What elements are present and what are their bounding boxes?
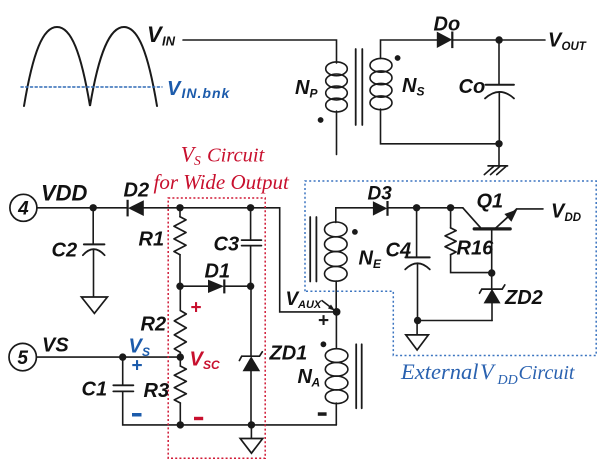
svg-text:N: N	[359, 248, 374, 270]
svg-text:Circuit: Circuit	[207, 145, 266, 167]
svg-text:S: S	[417, 85, 425, 99]
svg-text:S: S	[142, 345, 150, 359]
svg-text:4: 4	[17, 199, 29, 220]
capacitor Co	[486, 84, 514, 86]
node dot C4 top	[413, 204, 420, 211]
svg-text:+: +	[318, 311, 329, 332]
node dot VDD/C2	[90, 204, 97, 211]
wire Q1 base node to ZD2	[491, 273, 493, 289]
wire C1 bottom lead to bottom rail	[123, 392, 181, 425]
svg-text:Co: Co	[459, 76, 486, 98]
svg-text:Circuit: Circuit	[519, 362, 575, 384]
phase dot NS	[395, 55, 401, 61]
wire ZD2 bottom lead	[491, 303, 493, 321]
node dot bottom rail left	[177, 421, 184, 428]
svg-text:IN.bnk: IN.bnk	[182, 85, 231, 101]
svg-text:DD: DD	[565, 212, 582, 224]
transistor Q1 base lead down	[491, 230, 493, 273]
wire Co top lead	[498, 40, 500, 84]
wire C2 top lead	[92, 208, 94, 244]
svg-text:IN: IN	[162, 34, 176, 49]
svg-text:SC: SC	[203, 358, 220, 372]
resistor R3	[174, 366, 186, 403]
svg-text:C2: C2	[52, 240, 78, 262]
phase dot NA	[321, 341, 327, 347]
wire R1 top lead	[179, 208, 181, 217]
wire NS top lead to diode Do	[381, 40, 437, 59]
wire VS-circuit output to VAUX node	[251, 208, 337, 312]
svg-text:P: P	[310, 87, 319, 101]
node dot VS-circuit top left	[176, 204, 183, 211]
wire C4 top lead	[416, 208, 418, 257]
svg-text:DD: DD	[497, 373, 518, 388]
ground (earth) below Co	[488, 165, 507, 167]
wire D1 cathode	[224, 285, 250, 287]
ground triangle below C4	[406, 335, 429, 350]
wire VDD rail from pin 4 to D2	[37, 207, 127, 209]
svg-text:C4: C4	[386, 240, 412, 262]
svg-text:V: V	[480, 359, 496, 384]
svg-text:N: N	[402, 75, 417, 97]
wire R2 bottom lead to VSC node	[179, 352, 181, 357]
ground triangle below C2	[81, 297, 107, 313]
capacitor C4	[405, 256, 429, 258]
resistor R1	[174, 217, 186, 255]
svg-text:V: V	[167, 78, 182, 100]
wire ground stub below C4	[416, 321, 418, 335]
svg-text:D1: D1	[205, 261, 231, 283]
minus mark blue VS bottom	[132, 413, 142, 417]
node dot VS/C1	[119, 353, 126, 360]
wire ZD1 top lead	[250, 286, 252, 356]
wire R2 top lead	[179, 286, 181, 310]
wire Do cathode to VOUT	[452, 39, 545, 41]
diode D2	[128, 200, 144, 216]
svg-text:R3: R3	[144, 380, 170, 402]
phase dot NP	[318, 117, 324, 123]
wire C3 bottom lead	[250, 247, 252, 287]
wire D1 anode	[180, 285, 208, 287]
diode Do	[437, 32, 452, 48]
wire VS rail from pin 5	[37, 356, 181, 358]
resistor R2	[174, 311, 186, 353]
wire NS bottom to Co bottom	[381, 109, 500, 144]
node dot Q1 base / ZD2	[488, 269, 495, 276]
svg-text:C3: C3	[214, 234, 240, 256]
wire R16 top lead	[450, 208, 452, 228]
node dot bottom rail ground	[248, 421, 255, 428]
minus mark red VSC bottom	[194, 417, 203, 420]
wire D3 cathode rail	[388, 207, 463, 209]
svg-text:+: +	[132, 356, 143, 377]
winding NE	[325, 222, 348, 237]
capacitor C2	[84, 243, 105, 245]
svg-text:Q1: Q1	[477, 191, 504, 213]
wire D2 anode to VS-circuit node	[144, 207, 180, 209]
node dot VS-circuit top right	[247, 204, 254, 211]
svg-text:External: External	[400, 359, 478, 384]
wire R3 bottom lead	[179, 403, 181, 425]
blue dotted box External VDD circuit	[305, 181, 596, 356]
svg-text:ZD2: ZD2	[504, 287, 543, 309]
wire C1 top lead	[122, 357, 124, 384]
wire VS-circuit top rail	[180, 207, 251, 209]
capacitor C1	[113, 385, 133, 391]
svg-text:R1: R1	[139, 229, 165, 251]
node dot VOUT junction	[495, 36, 502, 43]
transistor Q1 collector lead	[463, 208, 481, 228]
minus mark black NA bottom	[318, 412, 327, 416]
svg-text:5: 5	[17, 348, 28, 369]
node dot VSC	[177, 353, 184, 360]
resistor R16	[445, 228, 456, 255]
svg-text:S: S	[194, 153, 201, 168]
svg-text:A: A	[311, 376, 321, 390]
transistor Q1 emitter arrow	[504, 209, 517, 221]
core of NA winding	[356, 344, 362, 408]
zener diode ZD1	[239, 352, 262, 361]
node dot VAUX	[333, 308, 341, 316]
svg-text:R16: R16	[457, 238, 495, 260]
wire C3 top lead	[250, 208, 252, 240]
capacitor C3	[242, 240, 262, 246]
svg-text:Do: Do	[434, 14, 461, 36]
svg-text:+: +	[191, 298, 202, 319]
svg-text:N: N	[298, 366, 313, 388]
svg-text:AUX: AUX	[297, 299, 322, 311]
wire VIN to transformer primary	[183, 40, 337, 63]
svg-text:for Wide Output: for Wide Output	[154, 170, 290, 194]
wire NE bottom lead to VAUX node	[335, 281, 337, 312]
svg-text:VDD: VDD	[41, 181, 88, 206]
zener diode ZD2	[480, 285, 505, 293]
node dot Co bottom	[495, 140, 502, 147]
node dot C3/D1/ZD1	[247, 283, 254, 290]
wire ground stub below bottom rail	[250, 425, 252, 438]
wire NP bottom lead	[336, 111, 338, 155]
red dotted box VS circuit	[168, 198, 265, 458]
wire R16 bottom lead to Q1 base node	[451, 255, 492, 273]
svg-text:C1: C1	[82, 379, 108, 401]
transformer core	[356, 49, 363, 125]
node dot C4 bottom ground	[414, 317, 421, 324]
terminal circle pin 4	[10, 194, 37, 221]
wire C4 bottom lead	[417, 264, 419, 321]
VAUX pointer arrow	[322, 300, 331, 307]
phase dot NE	[352, 229, 358, 235]
wire NE top lead to D3	[336, 208, 373, 223]
diode D1	[208, 280, 224, 293]
transistor Q1 emitter lead	[496, 209, 517, 228]
core of NE winding	[310, 217, 316, 282]
svg-text:D3: D3	[368, 184, 393, 205]
wire ZD1 bottom lead	[250, 371, 252, 425]
wire NA bottom lead	[335, 403, 337, 425]
svg-text:OUT: OUT	[562, 41, 587, 53]
wire Co bottom lead to ground	[498, 93, 500, 166]
winding NA	[325, 349, 348, 363]
svg-text:D2: D2	[124, 180, 150, 202]
transformer secondary winding NS	[370, 58, 392, 72]
ground triangle below ZD1	[240, 439, 263, 454]
svg-text:N: N	[295, 77, 310, 99]
wire R1 bottom lead	[179, 255, 181, 287]
diode D3	[373, 201, 387, 215]
node dot R1/D1/R2	[176, 283, 183, 290]
svg-text:R2: R2	[141, 314, 167, 336]
wire VAUX node to NA winding	[335, 312, 337, 348]
transistor Q1 base bar	[474, 227, 510, 230]
svg-text:VS: VS	[42, 335, 69, 357]
svg-text:E: E	[373, 257, 382, 271]
wire C4 ground node to ZD2 bottom	[418, 320, 493, 322]
svg-text:ZD1: ZD1	[269, 343, 308, 365]
waveform of rectified input voltage	[24, 27, 157, 106]
wire R3 top lead	[179, 357, 181, 366]
VIN.bnk dashed level line	[21, 86, 162, 88]
wire C2 bottom lead to ground	[93, 250, 95, 297]
node dot R16 top	[447, 204, 454, 211]
terminal circle pin 5	[9, 343, 36, 370]
wire Q1 emitter to VDD label	[517, 208, 544, 210]
transformer primary winding NP	[326, 62, 348, 76]
wire bottom rail to NA winding	[180, 424, 336, 426]
